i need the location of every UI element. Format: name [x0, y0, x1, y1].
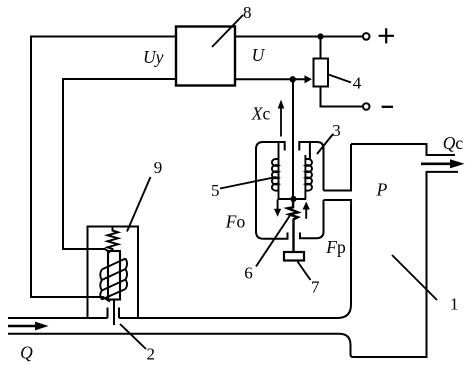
plunger rod from wiper junction down to coil junction: [292, 79, 294, 199]
leader line to label 4: [329, 75, 352, 83]
svg-text:Xc: Xc: [251, 104, 271, 124]
outlet lower lip and right wall down to bottom: [353, 172, 459, 357]
minus sign: [382, 106, 393, 108]
wire: potentiometer bottom to - terminal: [321, 87, 363, 107]
wire: amplifier output top to + terminal: [235, 36, 363, 38]
wire: amplifier output bottom to potentiometer wiper: [235, 78, 305, 80]
leader line to label 3: [317, 134, 333, 154]
svg-text:Qc: Qc: [443, 133, 464, 153]
terminal + (open circle): [363, 33, 370, 40]
svg-text:9: 9: [154, 158, 163, 177]
magnet core left bracket: [256, 142, 288, 239]
pipe bottom wall with step down into chamber: [8, 334, 353, 357]
svg-text:4: 4: [353, 73, 362, 92]
amplifier block 8: [176, 27, 235, 86]
force arrow Fo (down): [277, 200, 279, 211]
leader line to label 6: [256, 216, 290, 267]
leader line to label 7: [298, 262, 311, 281]
svg-text:Fo: Fo: [225, 211, 246, 231]
svg-text:1: 1: [450, 294, 459, 313]
Q inflow arrow: [8, 325, 36, 327]
nozzle lip left: [107, 308, 109, 319]
Xc displacement arrow: [280, 104, 282, 137]
nozzle lip right: [118, 308, 120, 319]
damper 7: [284, 252, 304, 261]
right pole stub: [309, 142, 311, 160]
spring 6 (zigzag under junction): [288, 199, 298, 252]
pipe top wall (right of sensor gap) to chamber pocket: [119, 317, 338, 319]
svg-text:2: 2: [147, 345, 156, 364]
svg-text:Uy: Uy: [143, 47, 164, 67]
junction dot at potentiometer top: [317, 33, 323, 39]
terminal - (open circle): [363, 103, 370, 110]
svg-text:6: 6: [244, 263, 253, 282]
sensor armature rod: [108, 251, 120, 300]
wiper arrowhead into potentiometer: [305, 75, 312, 83]
channel from magnet to chamber (upper wall): [324, 144, 352, 191]
leader line to label 8: [212, 15, 243, 47]
sensor spring (zigzag): [108, 227, 119, 252]
wire: feedback from sensor coil top to amplifier input (left inner): [63, 79, 176, 253]
svg-text:3: 3: [332, 121, 341, 140]
leader line to label 2: [120, 324, 146, 349]
sensor winding (helix): [100, 259, 127, 300]
sensor tip rod into pipe 2: [113, 300, 115, 326]
svg-text:Fp: Fp: [325, 237, 346, 257]
svg-text:Q: Q: [20, 343, 33, 363]
svg-text:P: P: [376, 179, 388, 199]
leader line to label 9: [127, 177, 151, 232]
svg-text:5: 5: [211, 181, 220, 200]
leader line to label 1: [392, 255, 437, 300]
coil (right winding turns): [305, 159, 312, 191]
coil 5 (left winding turns): [272, 159, 279, 191]
plus sign: [379, 28, 394, 43]
svg-text:8: 8: [243, 3, 252, 22]
chamber 1: top edge and outlet step: [351, 144, 455, 155]
wire: feedback from sensor coil bottom to amplifier input (left outer): [31, 37, 176, 302]
magnet core right bracket 3 (upper, with channel gap): [299, 142, 323, 191]
leader line to label 5: [220, 177, 276, 189]
wire joining coil bottoms: [278, 198, 307, 200]
wire: potentiometer top to junction: [320, 37, 322, 59]
sensor housing 9: [88, 227, 139, 319]
channel lower wall / pocket wall: [324, 200, 352, 318]
svg-text:U: U: [252, 45, 266, 65]
coil 5 (left winding core line): [278, 142, 280, 199]
svg-text:7: 7: [311, 277, 320, 296]
magnet core right bracket lower part: [300, 200, 324, 238]
Qc outflow arrow: [421, 163, 452, 166]
junction dot at wiper / plunger rod: [290, 76, 296, 82]
pipe top wall (left of sensor gap): [8, 317, 108, 319]
potentiometer 4: [314, 59, 329, 87]
junction dot under plunger: [290, 196, 296, 202]
coil (right winding core line): [304, 155, 306, 199]
force arrow Fp (up): [305, 208, 307, 219]
